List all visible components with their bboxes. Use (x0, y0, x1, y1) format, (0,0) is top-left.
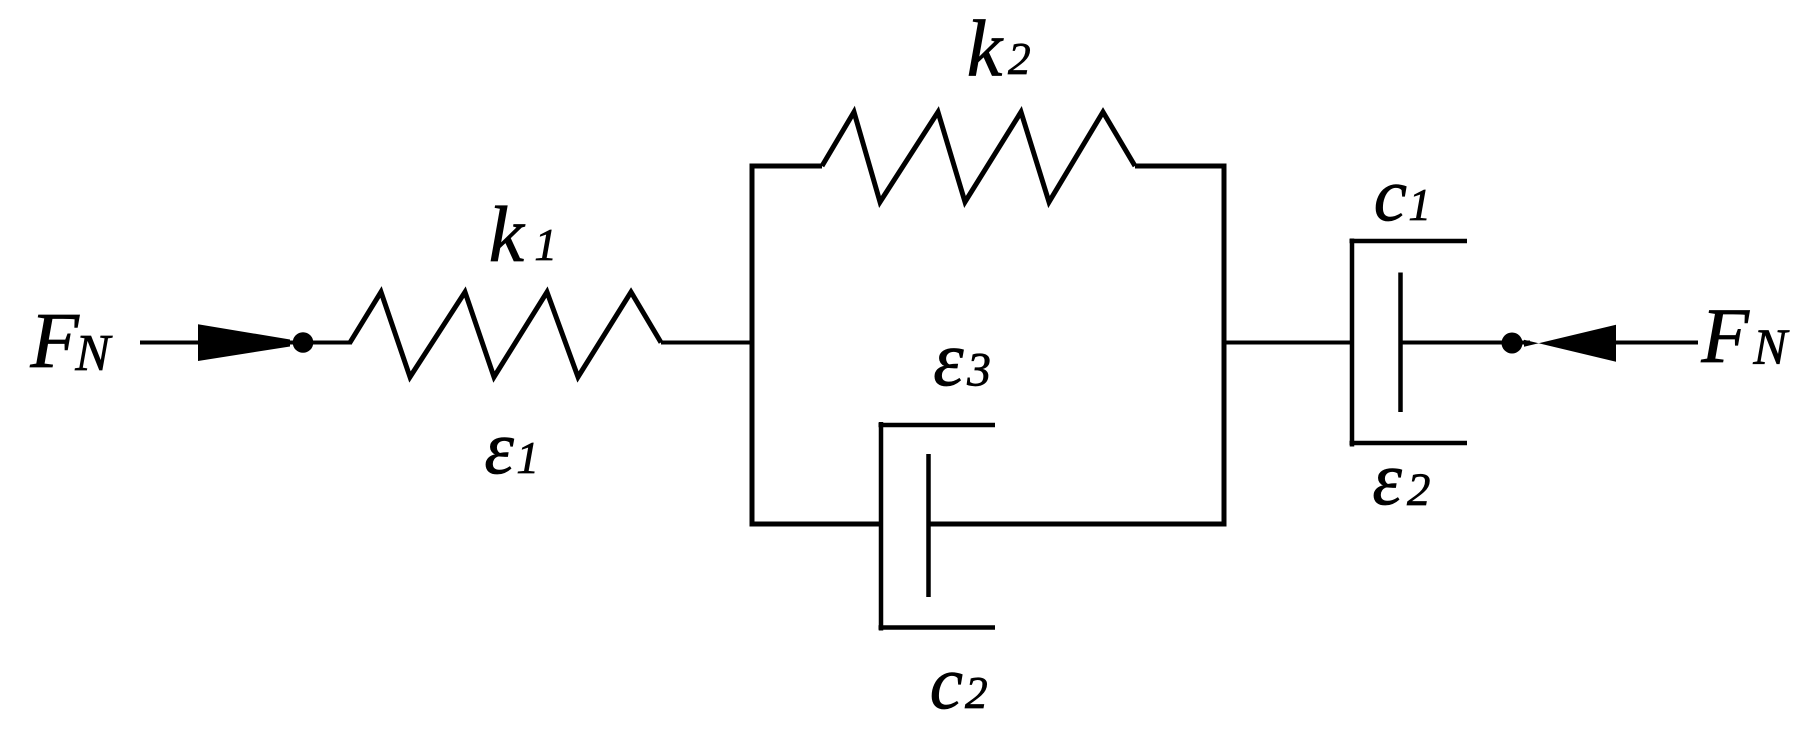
svg-text:1: 1 (1408, 180, 1431, 230)
svg-text:k: k (967, 6, 1004, 94)
svg-text:c: c (930, 642, 963, 725)
svg-text:ε: ε (484, 407, 514, 490)
svg-text:N: N (1752, 319, 1789, 375)
svg-text:3: 3 (966, 345, 991, 397)
svg-text:c: c (1374, 154, 1407, 237)
svg-text:ε: ε (933, 316, 964, 402)
svg-text:F: F (1700, 293, 1750, 379)
svg-text:2: 2 (1407, 464, 1430, 516)
svg-text:1: 1 (516, 433, 539, 483)
svg-text:2: 2 (965, 668, 988, 718)
svg-text:2: 2 (1008, 34, 1031, 84)
svg-text:N: N (74, 325, 113, 382)
svg-text:1: 1 (534, 220, 557, 270)
svg-text:F: F (29, 297, 80, 385)
svg-text:ε: ε (1372, 438, 1402, 521)
svg-text:k: k (489, 191, 526, 279)
